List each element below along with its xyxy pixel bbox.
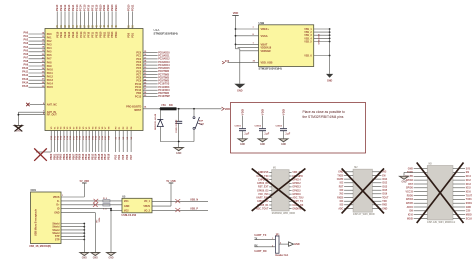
wire USB D- with X mark and series resistor R1: [61, 198, 122, 203]
svg-text:C0602: C0602: [255, 126, 262, 128]
svg-text:USB_N: USB_N: [190, 199, 198, 202]
power symbol 5V_USB (left) and wire VBUS: [61, 180, 89, 197]
svg-text:PA12: PA12: [22, 74, 29, 77]
svg-text:.1 µF: .1 µF: [244, 133, 250, 136]
svg-text:PE15: PE15: [94, 4, 98, 11]
svg-text:MISO: MISO: [466, 215, 472, 217]
svg-text:VDD_USB: VDD_USB: [261, 62, 273, 65]
svg-text:VDD: VDD: [282, 109, 286, 115]
svg-text:PB13: PB13: [111, 31, 114, 38]
svg-text:VCC33: VCC33: [405, 191, 413, 193]
connector CN1 USB Micro B body: [31, 192, 62, 244]
svg-text:RXD1: RXD1: [466, 203, 473, 205]
svg-text:GND: GND: [237, 89, 243, 92]
svg-text:ESP-07_WIFI_MOD: ESP-07_WIFI_MOD: [353, 213, 375, 216]
svg-text:GPIO16: GPIO16: [292, 194, 301, 196]
wire ground bus right of U1B: [329, 29, 331, 74]
svg-text:RST_EXT: RST_EXT: [258, 187, 269, 189]
module M3 right pins: [453, 168, 473, 220]
wire VBAT to U1B: [236, 42, 259, 44]
svg-text:IO14: IO14: [382, 178, 388, 181]
wire GND pin down to ground, with R7 label: [61, 213, 101, 253]
svg-text:PA3: PA3: [24, 42, 29, 45]
ground under ID wire: [107, 253, 116, 260]
svg-text:PD10: PD10: [127, 4, 131, 11]
wire ID pin down to ground: [61, 208, 122, 253]
ground below NRST branch: [174, 148, 183, 155]
svg-text:PF11: PF11: [91, 4, 95, 11]
svg-text:PD4: PD4: [118, 154, 121, 159]
node UART_RX label: [254, 249, 267, 253]
svg-text:GND: GND: [382, 208, 387, 210]
U1A right pin wires with net labels PC0-PC12: [135, 51, 170, 98]
wire bottom rail of NRST branch to ground: [160, 141, 194, 148]
svg-text:.1 µF: .1 µF: [285, 133, 291, 136]
wire VDD rail down the left of U1B: [235, 16, 240, 84]
svg-text:GND: GND: [124, 205, 130, 208]
svg-text:PB11: PB11: [102, 4, 106, 11]
wire TX to header: [254, 238, 275, 240]
svg-text:ADC: ADC: [338, 207, 343, 210]
capacitor C2 100nF bypass: [255, 109, 270, 146]
svg-text:RST: RST: [339, 186, 344, 188]
svg-text:STM32F103VE(64): STM32F103VE(64): [259, 67, 282, 71]
svg-text:PF10: PF10: [88, 31, 91, 37]
module M1 body (crossed-out module): [272, 168, 296, 215]
CN1 right pin names: [52, 196, 60, 242]
svg-text:PE10: PE10: [56, 31, 59, 38]
svg-text:PC15: PC15: [83, 4, 87, 11]
svg-text:PE13: PE13: [67, 4, 71, 11]
wire VREF+ to U1B: [236, 27, 259, 29]
svg-text:Place as close as possible to: Place as close as possible to: [303, 110, 345, 114]
svg-text:IO16: IO16: [466, 191, 472, 193]
svg-text:PB10: PB10: [98, 4, 102, 11]
svg-text:IO12: IO12: [466, 180, 472, 182]
svg-text:ADC0: ADC0: [407, 206, 414, 209]
svg-text:RST: RST: [408, 184, 413, 186]
U1B reference designator label: [259, 21, 282, 71]
svg-text:PC13/TMP: PC13/TMP: [158, 95, 170, 98]
module M3 deletion cross X: [417, 163, 464, 224]
svg-text:PB13: PB13: [110, 4, 114, 11]
svg-text:PE14: PE14: [71, 4, 75, 11]
svg-text:PE10: PE10: [55, 4, 59, 11]
svg-text:PA11: PA11: [22, 71, 29, 74]
note box: bypass capacitors placement: [231, 103, 366, 154]
U1A pin NRST internal labels: [126, 106, 141, 112]
svg-text:IO15: IO15: [382, 190, 388, 192]
svg-text:ADC_TOU: ADC_TOU: [292, 197, 303, 200]
svg-text:5V_USB: 5V_USB: [166, 180, 176, 183]
U1A reference designator label: [154, 28, 178, 36]
svg-text:GND: GND: [108, 258, 113, 260]
svg-text:ESP-12E_WIFI_MODULE: ESP-12E_WIFI_MODULE: [427, 221, 455, 224]
svg-text:C0603: C0603: [276, 126, 283, 128]
U1A top pin wires with net labels (left group of 16): [55, 4, 118, 38]
wire header middle pin to ground flag: [279, 242, 289, 244]
svg-text:UART_TX: UART_TX: [254, 233, 266, 237]
module M2 right pins: [372, 172, 389, 211]
IC U1A body (STM32F103VE main MCU): [45, 29, 143, 131]
svg-text:PA4: PA4: [24, 46, 29, 49]
svg-text:GND: GND: [401, 181, 406, 183]
svg-text:PC13: PC13: [75, 4, 79, 11]
svg-text:PA7: PA7: [24, 56, 29, 59]
svg-text:.1 µF: .1 µF: [264, 133, 270, 136]
svg-text:D-: D-: [57, 200, 60, 203]
svg-text:GPIO4: GPIO4: [406, 198, 414, 201]
svg-text:U1B: U1B: [259, 21, 265, 25]
svg-text:STP: STP: [55, 238, 60, 241]
svg-text:PC13: PC13: [135, 95, 142, 98]
svg-text:IO12: IO12: [382, 183, 388, 185]
svg-text:PD0: PD0: [128, 32, 131, 37]
note text inside box: [303, 110, 345, 119]
svg-text:PB18: PB18: [107, 153, 110, 160]
svg-text:GPIO12: GPIO12: [292, 183, 301, 185]
svg-text:TXD1: TXD1: [466, 199, 473, 201]
U1A pin ANT_NC with no-connect X: [26, 103, 57, 107]
svg-text:PE11: PE11: [60, 31, 63, 37]
svg-text:RXD0: RXD0: [337, 197, 344, 199]
module M1 deletion cross X: [252, 169, 306, 211]
svg-text:TXD0: TXD0: [337, 175, 344, 177]
U1B right pin names: [304, 28, 312, 58]
svg-text:IO16: IO16: [382, 194, 388, 196]
svg-text:PE14: PE14: [72, 31, 75, 38]
svg-text:CHPD: CHPD: [337, 179, 344, 181]
ground under GND pin wire: [91, 253, 100, 260]
svg-text:GPIO15: GPIO15: [292, 190, 301, 192]
svg-text:GND: GND: [260, 144, 265, 146]
U1B right pin wires to ground bus: [314, 28, 331, 56]
svg-text:C0603 100nF: C0603 100nF: [176, 119, 178, 133]
svg-text:PF10: PF10: [87, 4, 91, 11]
U1A bottom pin wires (right group of 5): [114, 126, 133, 160]
svg-text:PB11: PB11: [103, 31, 106, 38]
svg-text:GND: GND: [16, 131, 21, 133]
svg-text:PD6: PD6: [126, 154, 129, 159]
svg-text:Header 3x1: Header 3x1: [275, 254, 288, 257]
svg-text:VBUS: VBUS: [143, 205, 150, 208]
svg-text:PD3: PD3: [114, 154, 117, 159]
svg-text:ANT_NC: ANT_NC: [47, 103, 57, 106]
svg-text:PA8: PA8: [47, 61, 52, 64]
CN1 reference designator: [29, 188, 51, 248]
pushbutton SW1 RESET: [193, 109, 205, 142]
sideways ground flag GND at header: [289, 242, 300, 246]
svg-text:GND: GND: [82, 258, 87, 260]
svg-text:I/O2: I/O2: [124, 209, 129, 212]
svg-text:ESP8266_WIFI_MOD: ESP8266_WIFI_MOD: [272, 212, 296, 215]
svg-text:PA1: PA1: [47, 36, 52, 39]
svg-text:PB12: PB12: [106, 4, 110, 11]
wire NRST from U1A to ferrite bead: [143, 105, 160, 108]
svg-text:GND: GND: [408, 168, 413, 170]
svg-text:GPIO5: GPIO5: [406, 203, 414, 205]
svg-text:PD11: PD11: [131, 4, 135, 11]
svg-text:B3F: B3F: [199, 121, 204, 123]
svg-text:I/O1: I/O1: [124, 200, 129, 203]
ground at bottom of U1B bus: [326, 74, 333, 83]
U2 pin names: [124, 200, 151, 212]
wire USB D+ with X mark and series resistor R2: [61, 203, 122, 211]
svg-text:TOUT: TOUT: [466, 195, 473, 197]
svg-text:GPIO0_D3: GPIO0_D3: [257, 190, 269, 192]
ground at module M3 pin 2: [400, 172, 414, 183]
svg-text:PA5: PA5: [47, 51, 52, 54]
svg-text:PB14: PB14: [115, 31, 118, 38]
svg-text:EN: EN: [382, 175, 386, 177]
svg-text:PE12: PE12: [63, 4, 67, 11]
svg-text:PA15: PA15: [47, 86, 54, 89]
svg-text:VDDSA18: VDDSA18: [261, 47, 272, 50]
svg-text:VDDSAW: VDDSAW: [261, 50, 272, 53]
IC U1B body (STM32 power pins part): [259, 25, 314, 67]
svg-text:5V_USB: 5V_USB: [80, 180, 90, 183]
svg-text:USB Micro B receptacle: USB Micro B receptacle: [35, 208, 38, 236]
svg-text:PA1: PA1: [24, 35, 29, 38]
svg-text:RF_OUT: RF_OUT: [47, 114, 57, 117]
svg-text:GND: GND: [294, 243, 300, 246]
svg-text:PF11: PF11: [92, 31, 95, 37]
svg-text:STM32F103VE(64): STM32F103VE(64): [154, 32, 178, 36]
svg-text:RXD: RXD: [382, 205, 387, 207]
big earth ground at bottom of VDD rail: [234, 84, 245, 93]
svg-text:GPIO0: GPIO0: [406, 188, 414, 190]
svg-text:FB1: FB1: [162, 105, 167, 107]
power symbol 5V_USB (right): [166, 180, 176, 206]
svg-text:MOSI: MOSI: [407, 218, 413, 220]
svg-text:I/O_2: I/O_2: [144, 209, 151, 212]
svg-text:GND: GND: [281, 144, 286, 146]
svg-text:USB_P: USB_P: [190, 208, 198, 211]
svg-text:GPIO14: GPIO14: [292, 178, 301, 181]
svg-text:IO10: IO10: [408, 215, 414, 217]
svg-text:3V3: 3V3: [466, 168, 471, 170]
node UART_TX label: [254, 233, 266, 237]
svg-text:PC15: PC15: [84, 31, 87, 38]
svg-text:GND: GND: [240, 144, 245, 146]
module M2 deletion cross X: [342, 168, 384, 213]
svg-text:VDD: VDD: [225, 107, 231, 111]
svg-text:PC13: PC13: [76, 31, 79, 38]
svg-text:TXD: TXD: [382, 201, 387, 203]
svg-text:PC14: PC14: [80, 31, 83, 38]
CN1 rotated description text: [35, 208, 38, 236]
module M3 body (crossed-out module): [427, 164, 455, 224]
svg-text:VBUS: VBUS: [53, 196, 60, 199]
svg-text:VSS_5: VSS_5: [304, 40, 312, 43]
module M1 left pins: [256, 172, 272, 210]
svg-text:PA9: PA9: [24, 64, 29, 67]
svg-text:USBLC6-2S6: USBLC6-2S6: [122, 214, 137, 217]
ferrite bead FB1 on NRST line: [160, 105, 177, 110]
svg-text:PA10: PA10: [47, 68, 54, 71]
svg-text:the STM32F/RB/T4/M4 pins: the STM32F/RB/T4/M4 pins: [303, 115, 344, 119]
wire USB_P out of U2 with X mark: [152, 208, 208, 213]
module M2 left pins: [337, 172, 353, 211]
svg-text:UART_RX: UART_RX: [254, 249, 267, 253]
svg-text:C0601: C0601: [235, 126, 242, 128]
connector JP1 header 3x1: [275, 234, 288, 257]
svg-text:USB_4B_MICRO(B): USB_4B_MICRO(B): [29, 245, 51, 248]
svg-text:GND: GND: [327, 80, 333, 83]
node 3V3 net flag: [222, 107, 231, 111]
svg-text:TOUT: TOUT: [382, 197, 389, 199]
svg-text:GND: GND: [466, 207, 471, 209]
svg-text:PA3: PA3: [47, 44, 52, 47]
capacitor C1 100nF bypass: [235, 109, 250, 146]
svg-text:CS0: CS0: [466, 211, 471, 213]
wire from ferrite bead to 3V3 flag: [177, 108, 222, 110]
svg-text:VCC_3V3: VCC_3V3: [258, 194, 269, 196]
module M2 body (crossed-out module): [353, 167, 375, 216]
module M3 left pins: [405, 168, 427, 220]
capacitor C3 100nF bypass: [276, 109, 291, 146]
svg-text:PA14: PA14: [47, 83, 54, 86]
svg-text:PA7: PA7: [47, 58, 52, 61]
svg-text:GPIO13: GPIO13: [292, 187, 301, 189]
U1A left pin wires with net labels PA0-PA15: [22, 32, 53, 90]
power symbol VDD (top of U1B rail): [232, 11, 238, 16]
svg-text:PD5: PD5: [122, 154, 125, 159]
svg-text:PE12: PE12: [64, 31, 67, 38]
node VDD_USB flag and wire to U1B: [222, 60, 259, 64]
svg-text:CN1: CN1: [31, 188, 37, 192]
svg-text:PD1: PD1: [132, 32, 135, 37]
svg-text:IO13: IO13: [466, 184, 472, 186]
svg-text:PE11: PE11: [59, 4, 63, 11]
no-connect X over bottom-left boot pins: [34, 148, 51, 160]
wire VSSA to U1B: [236, 34, 259, 36]
svg-text:VDD: VDD: [261, 109, 265, 115]
diode D1 on NRST branch: [154, 108, 163, 142]
svg-text:EN: EN: [466, 172, 470, 174]
svg-text:ADC_TOUT: ADC_TOUT: [256, 207, 269, 210]
svg-text:3V3: 3V3: [339, 194, 344, 196]
svg-text:ID: ID: [57, 208, 60, 211]
svg-text:SCLK: SCLK: [466, 218, 473, 220]
svg-text:PE15: PE15: [96, 31, 99, 38]
wire RX to header: [254, 245, 275, 247]
svg-text:GND: GND: [338, 172, 343, 174]
svg-text:GND: GND: [54, 212, 60, 215]
svg-text:PB14: PB14: [114, 4, 118, 11]
svg-text:1022: 1022: [199, 123, 205, 125]
capacitor C4 100nF on NRST branch: [175, 109, 182, 142]
svg-text:GND@999: GND@999: [318, 33, 320, 44]
svg-text:3V3: 3V3: [382, 172, 387, 174]
svg-text:PD7: PD7: [130, 154, 133, 159]
ground under shield bus: [80, 253, 89, 260]
U1A top pin wires (right group of 2): [127, 4, 135, 38]
svg-text:100k: 100k: [99, 217, 101, 223]
svg-text:PE13: PE13: [68, 31, 71, 38]
svg-text:RXD0: RXD0: [407, 195, 414, 197]
wire USB_N out of U2 with X mark: [152, 199, 208, 204]
wire U2 VBUS pin to 5V_USB: [152, 205, 171, 207]
svg-text:GND: GND: [176, 152, 182, 155]
svg-text:SD0603 LL4148: SD0603 LL4148: [154, 113, 157, 130]
svg-text:VDD: VDD: [241, 109, 245, 115]
U1A pins ANT_IN / RF_OUT wires: [18, 111, 58, 126]
svg-text:VREF+: VREF+: [261, 27, 270, 31]
svg-text:VBAT: VBAT: [261, 42, 268, 46]
svg-text:IO13: IO13: [382, 186, 388, 188]
U2 labels: [122, 196, 137, 218]
crossed-out ground symbol below ANT pins: [14, 125, 23, 133]
svg-text:PB10: PB10: [99, 31, 102, 38]
svg-text:JP1: JP1: [275, 234, 280, 236]
svg-text:IO14: IO14: [466, 175, 472, 178]
wire VDDSAW to U1B: [240, 50, 259, 52]
svg-text:I/O_1: I/O_1: [144, 200, 151, 203]
IC U2 body (USBLC6 ESD protection): [122, 198, 152, 213]
svg-text:NRST: NRST: [134, 109, 141, 112]
U1A bottom pin wires with net labels (left group of 19): [50, 126, 110, 160]
svg-text:VSSA: VSSA: [261, 34, 268, 38]
svg-text:GPIO2: GPIO2: [406, 180, 414, 182]
svg-text:PA12: PA12: [47, 76, 54, 79]
svg-text:VSS_6: VSS_6: [304, 54, 312, 57]
wire shield bus to ground: [61, 223, 85, 253]
svg-text:PC14: PC14: [79, 4, 83, 11]
svg-text:VDD: VDD: [233, 11, 239, 15]
svg-text:IO15: IO15: [466, 188, 472, 190]
svg-text:PB12: PB12: [107, 31, 110, 38]
svg-text:PA15: PA15: [22, 85, 29, 88]
wire VDD-2 to U1B: [238, 47, 259, 49]
svg-text:GPIO2_D4: GPIO2_D4: [257, 182, 269, 185]
svg-text:GND: GND: [93, 258, 98, 260]
U1B left pin names: [261, 27, 273, 65]
module M1 right pins: [289, 172, 304, 210]
